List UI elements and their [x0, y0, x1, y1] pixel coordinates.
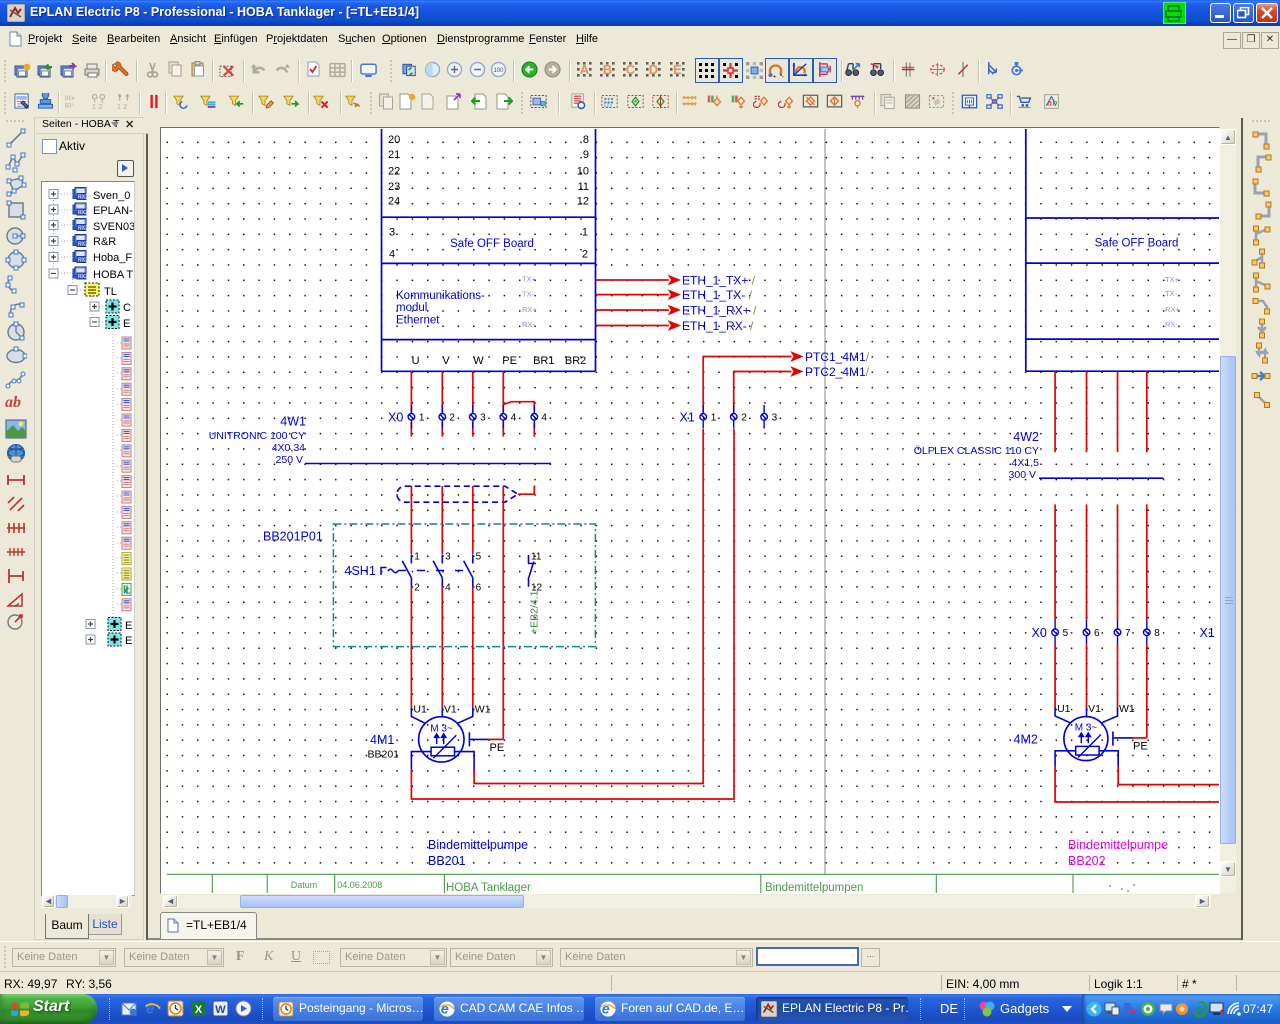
- dimension tools (red): [5, 470, 27, 490]
- zoom group: [402, 61, 419, 78]
- svg-text:4SH1: 4SH1: [345, 564, 376, 578]
- canvas vertical scrollbar: [1220, 129, 1236, 893]
- svg-text:Datum: Datum: [291, 880, 318, 890]
- dotted connectors: [54, 194, 123, 640]
- svg-text:11: 11: [531, 552, 542, 563]
- wire: [411, 371, 534, 436]
- svg-text:300 V: 300 V: [1009, 469, 1036, 481]
- svg-text:B: B: [603, 62, 612, 77]
- svg-text:TL: TL: [104, 286, 117, 298]
- svg-text:PE: PE: [490, 742, 505, 754]
- svg-text:8: 8: [1154, 628, 1160, 639]
- svg-text:X0: X0: [388, 411, 403, 425]
- wire PTC return paths: [411, 429, 734, 799]
- Aktiv checkbox: [42, 139, 57, 154]
- svg-text:4X1,5: 4X1,5: [1012, 457, 1040, 469]
- svg-text:A: A: [580, 62, 590, 77]
- svg-text:PTC2_4M1/: PTC2_4M1/: [805, 365, 870, 379]
- svg-text:4W1: 4W1: [280, 415, 306, 429]
- svg-text:a: a: [1047, 98, 1052, 108]
- terminal X0:2: [439, 405, 446, 429]
- svg-text:6: 6: [476, 583, 482, 594]
- svg-text:X1: X1: [1200, 626, 1215, 640]
- motor 4M1: [419, 717, 464, 762]
- wire: [1039, 477, 1164, 479]
- svg-text:e: e: [602, 1001, 610, 1017]
- svg-text:3: 3: [480, 413, 486, 424]
- wire: [411, 587, 472, 708]
- svg-text:C: C: [123, 302, 131, 314]
- svg-text:Hoba_F: Hoba_F: [93, 252, 132, 264]
- svg-text:12: 12: [531, 583, 543, 594]
- svg-text:83²: 83²: [65, 103, 74, 109]
- svg-text:22: 22: [388, 165, 400, 177]
- svg-text:U1: U1: [1057, 703, 1071, 715]
- wire: [411, 486, 503, 739]
- motor 4M2 terminal stubs U1 V1 W1: [1055, 708, 1117, 723]
- svg-text:M 3~: M 3~: [430, 724, 453, 735]
- svg-text:X0: X0: [1032, 626, 1047, 640]
- svg-text:D: D: [649, 62, 658, 77]
- svg-text:W1: W1: [1119, 703, 1135, 715]
- wire: [703, 357, 791, 413]
- svg-text:1: 1: [414, 552, 420, 563]
- start button: [0, 994, 97, 1024]
- device block Safe OFF Board left: [382, 129, 596, 371]
- svg-text:E: E: [125, 635, 132, 647]
- svg-text:M 3~: M 3~: [1075, 723, 1098, 734]
- wire motor-left: [411, 752, 474, 770]
- undo / redo: [250, 62, 267, 79]
- svg-text:TX+: TX+: [522, 275, 537, 284]
- TL row: [68, 286, 77, 295]
- svg-text:BB201: BB201: [428, 854, 466, 868]
- svg-text:BB202: BB202: [1068, 854, 1106, 868]
- svg-text:1: 1: [419, 413, 425, 424]
- A B C D E grid letters: [576, 61, 593, 78]
- svg-text:e: e: [146, 1001, 154, 1018]
- contact 3-4: [433, 555, 442, 587]
- svg-text:2: 2: [582, 248, 588, 260]
- contact 1-2: [402, 555, 411, 587]
- svg-text:modul: modul: [396, 302, 427, 314]
- svg-text:4: 4: [511, 413, 517, 424]
- top level rows: [49, 190, 58, 199]
- quick launch icons: [109, 998, 113, 1020]
- svg-text:1 2: 1 2: [117, 102, 128, 110]
- svg-text:TX-: TX-: [1165, 289, 1178, 298]
- snap icon: [746, 62, 763, 79]
- terminal X0:6: [1083, 621, 1090, 645]
- wire motor2 bottom: [1055, 751, 1118, 767]
- contact 5-6: [464, 555, 473, 587]
- wire: [1055, 371, 1147, 620]
- svg-text:8: 8: [583, 134, 589, 146]
- svg-text:3: 3: [445, 552, 451, 563]
- svg-text:250 V: 250 V: [276, 454, 303, 466]
- svg-text:V1: V1: [1088, 703, 1101, 715]
- svg-text:RX+: RX+: [1165, 305, 1180, 314]
- cable marker 4W1: [397, 486, 518, 502]
- green tray printer icon: [1163, 2, 1186, 24]
- terminal X0:5: [1052, 621, 1059, 645]
- PE connection 4M2: [1113, 732, 1133, 746]
- svg-text:E: E: [123, 318, 130, 330]
- svg-text:Ethernet: Ethernet: [396, 315, 440, 327]
- bottom E rows: [86, 620, 95, 629]
- terminal X1:1: [700, 405, 707, 429]
- svg-text:b: b: [1052, 98, 1057, 108]
- svg-text:e: e: [441, 1001, 449, 1017]
- svg-text:Bindemittelpumpe: Bindemittelpumpe: [428, 838, 528, 852]
- svg-text:5: 5: [1063, 628, 1069, 639]
- svg-text:X1: X1: [680, 411, 695, 425]
- svg-text:UNITRONIC 100 CY: UNITRONIC 100 CY: [209, 430, 305, 442]
- svg-text:1: 1: [582, 227, 588, 239]
- terminal X1:3: [761, 405, 768, 429]
- svg-text:Safe OFF Board: Safe OFF Board: [1095, 238, 1179, 250]
- svg-text:TX-: TX-: [522, 290, 535, 299]
- tabs: [45, 914, 89, 939]
- drawing title block: [167, 874, 1219, 893]
- 3 pressed option buttons: [765, 58, 789, 83]
- svg-text:Safe OFF Board: Safe OFF Board: [450, 238, 534, 250]
- device block Safe OFF Board right: [1026, 129, 1219, 371]
- svg-text:ETH_1_TX+ /: ETH_1_TX+ /: [682, 273, 756, 287]
- svg-text:10: 10: [577, 165, 589, 177]
- play button: [117, 160, 134, 177]
- svg-text:2: 2: [741, 413, 747, 424]
- tree area: [41, 181, 135, 896]
- svg-text:123: 123: [604, 103, 613, 109]
- svg-text:ETH_1_RX+ /: ETH_1_RX+ /: [682, 303, 757, 317]
- wire: [1055, 644, 1147, 738]
- svg-text:3: 3: [772, 413, 778, 424]
- tray: [1082, 994, 1280, 1024]
- svg-text:+EB2/4.1: +EB2/4.1: [529, 590, 541, 634]
- svg-text:4: 4: [445, 583, 451, 594]
- svg-text:4: 4: [389, 248, 395, 260]
- switch linkage dashed line: [398, 570, 466, 572]
- svg-text:SVEN03: SVEN03: [93, 221, 134, 233]
- terminal X0:8: [1143, 621, 1150, 645]
- task buttons: [273, 997, 423, 1021]
- thermistor PTC of 4M2: [1076, 746, 1099, 755]
- motor 4M1 terminal stubs U1 V1 W1: [411, 708, 472, 723]
- svg-text:U1: U1: [413, 704, 427, 716]
- leaves: [122, 337, 131, 349]
- pressed grid buttons: [695, 58, 719, 83]
- svg-text:2: 2: [414, 583, 420, 594]
- interrupt arrows ETH: [668, 275, 681, 331]
- svg-text:PE: PE: [1133, 741, 1148, 753]
- svg-text:1 2: 1 2: [92, 102, 103, 110]
- wire: [1055, 767, 1219, 802]
- svg-text:12: 12: [577, 196, 589, 208]
- svg-text:EPLAN-: EPLAN-: [93, 205, 133, 217]
- svg-text:HOBA Tanklager: HOBA Tanklager: [446, 882, 531, 893]
- wrench: [112, 61, 129, 78]
- C / E rows: [90, 302, 99, 311]
- monitor: [360, 62, 377, 79]
- svg-text:RX-: RX-: [522, 320, 535, 329]
- PE connection 4M1: [469, 732, 488, 746]
- binoculars: [845, 61, 862, 78]
- svg-text:6: 6: [1094, 628, 1100, 639]
- svg-text:Bindemittelpumpe: Bindemittelpumpe: [1068, 838, 1168, 852]
- motor 4M2: [1064, 717, 1108, 761]
- thermistor PTC of 4M1: [431, 747, 454, 756]
- svg-text:24: 24: [388, 196, 400, 208]
- svg-text:5: 5: [476, 552, 482, 563]
- svg-text:BR1: BR1: [533, 355, 554, 367]
- svg-text:3: 3: [389, 227, 395, 239]
- svg-text:04.06.2008: 04.06.2008: [337, 880, 382, 890]
- svg-text:BB201P01: BB201P01: [263, 530, 323, 544]
- canvas horizontal scrollbar: [162, 895, 1211, 908]
- cut/copy/paste (gray disabled): [144, 62, 161, 79]
- pin numbers 20-24 / 3-4 left: [388, 134, 400, 260]
- svg-text:Kommunikations-: Kommunikations-: [396, 290, 485, 302]
- svg-text:V: V: [442, 355, 450, 367]
- svg-text:V1: V1: [444, 704, 457, 716]
- svg-text:4W2: 4W2: [1013, 430, 1039, 444]
- sheet tab: [160, 912, 257, 939]
- svg-text:4M2: 4M2: [1014, 733, 1038, 747]
- svg-text:ÖLFLEX CLASSIC 110 CY: ÖLFLEX CLASSIC 110 CY: [914, 445, 1039, 457]
- switch actuator 4SH1: [381, 568, 398, 576]
- bottom scrollbar of tree: [42, 895, 132, 908]
- terminal X0:4b: [531, 405, 538, 429]
- svg-text:W: W: [215, 1004, 226, 1016]
- svg-text:7: 7: [1125, 628, 1131, 639]
- terminal X0:4: [500, 405, 507, 429]
- svg-text:21: 21: [388, 149, 400, 161]
- svg-text:C: C: [626, 62, 636, 77]
- delete: [219, 62, 236, 79]
- svg-text:W: W: [473, 355, 484, 367]
- svg-text:4: 4: [541, 413, 547, 424]
- svg-text:BR2: BR2: [565, 355, 586, 367]
- 12 connection icons: [1251, 130, 1273, 152]
- svg-text:PTC1_4M1/: PTC1_4M1/: [805, 350, 870, 364]
- svg-text:E: E: [673, 62, 682, 77]
- enclosure box BB201P01: [333, 524, 595, 647]
- svg-text:RX-: RX-: [1165, 320, 1178, 329]
- interrupt arrows PTC: [790, 351, 803, 362]
- wire: [596, 280, 669, 326]
- svg-text:100: 100: [493, 68, 504, 74]
- svg-text:Bindemittelpumpen: Bindemittelpumpen: [765, 882, 863, 893]
- wire: [305, 463, 551, 465]
- panel title: [36, 118, 149, 134]
- svg-text:4X0,34: 4X0,34: [272, 442, 305, 454]
- terminal X1:2: [730, 405, 737, 429]
- pin numbers 8-12 / 1-2 right: [577, 134, 589, 260]
- svg-text:23: 23: [388, 181, 400, 193]
- svg-text:R&R: R&R: [93, 236, 116, 248]
- terminal X0:3: [470, 405, 477, 429]
- svg-text:TX+: TX+: [1165, 275, 1180, 284]
- svg-text:HOBA T: HOBA T: [93, 269, 133, 281]
- drawing tool icons: [5, 127, 27, 149]
- svg-text:E: E: [125, 620, 132, 632]
- new/open/close/print: [14, 62, 31, 79]
- svg-text:RX+: RX+: [522, 305, 537, 314]
- svg-text:20: 20: [388, 134, 400, 146]
- svg-text:01≠: 01≠: [65, 96, 76, 102]
- svg-text:2: 2: [449, 413, 455, 424]
- svg-text:11: 11: [578, 181, 589, 193]
- svg-text:PE: PE: [502, 355, 517, 367]
- language + gadgets + tray: [920, 998, 924, 1020]
- wire edit icons: [901, 61, 918, 78]
- svg-text:9: 9: [583, 149, 589, 161]
- svg-text:ETH_1_TX- /: ETH_1_TX- /: [682, 288, 753, 302]
- wire: [518, 486, 535, 495]
- svg-text:4M1: 4M1: [370, 733, 394, 747]
- terminal X0:7: [1114, 621, 1121, 645]
- svg-text:BB201: BB201: [368, 749, 400, 761]
- svg-text:W1: W1: [475, 704, 491, 716]
- svg-text:X: X: [195, 1004, 203, 1016]
- wire: [824, 129, 826, 874]
- contact 11-12: [528, 555, 536, 587]
- svg-text:Sven_0: Sven_0: [93, 190, 130, 202]
- svg-text:1: 1: [711, 413, 717, 424]
- svg-text:ETH_1_RX- /: ETH_1_RX- /: [682, 319, 754, 333]
- svg-text:U: U: [412, 355, 420, 367]
- terminal X0:1: [408, 405, 415, 429]
